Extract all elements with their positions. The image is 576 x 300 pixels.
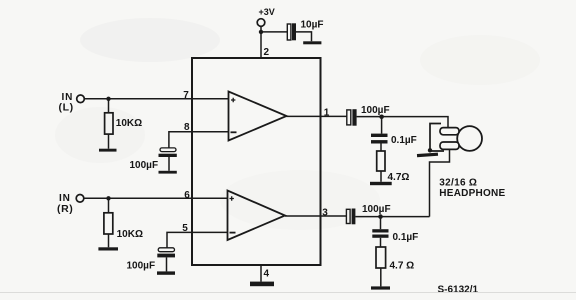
- wire pin 4 to ground: [260, 265, 262, 282]
- svg-text:1: 1: [324, 108, 330, 119]
- junction dot left output node: [379, 115, 384, 120]
- svg-text:0.1µF: 0.1µF: [391, 135, 417, 146]
- node IN (R) input terminal: [57, 193, 84, 215]
- wire C6 to headphone branch: [355, 216, 429, 218]
- capacitor C6 100uF series right: [346, 209, 355, 225]
- wire pin 5 to C3: [167, 232, 228, 247]
- wire IN (L) to op-amp pin 7: [84, 98, 228, 100]
- wire C2 to ground: [168, 157, 170, 171]
- resistor R2 10K: [104, 213, 113, 234]
- wire C1 to ground: [296, 32, 312, 41]
- ground below R3: [370, 182, 392, 185]
- svg-text:4.7Ω: 4.7Ω: [388, 172, 410, 183]
- op-amp U1b: [228, 191, 286, 241]
- wire junction to C5: [381, 117, 383, 134]
- ground below C3: [157, 271, 175, 274]
- capacitor C7 0.1uF right: [372, 229, 388, 238]
- capacitor C1 10uF: [287, 23, 296, 40]
- wire R1 to ground: [108, 134, 110, 149]
- ground below R2: [98, 247, 118, 250]
- wire headphone lower lug to right channel: [430, 149, 450, 216]
- capacitor C2 100uF: [159, 148, 177, 157]
- capacitor C3 100uF: [157, 248, 175, 258]
- junction dot right output node: [378, 214, 383, 219]
- svg-text:100µF: 100µF: [130, 160, 159, 171]
- ground below R1: [99, 149, 117, 152]
- junction dot left input node: [106, 97, 110, 101]
- node +3V supply terminal: [257, 7, 275, 26]
- svg-text:(R): (R): [57, 203, 73, 215]
- svg-text:HEADPHONE: HEADPHONE: [439, 188, 505, 199]
- capacitor C4 100uF series left: [347, 109, 357, 126]
- wire junction to R1: [108, 99, 110, 113]
- wire junction to R2: [108, 198, 110, 213]
- capacitor C5 0.1uF: [371, 134, 388, 144]
- svg-text:S-6132/1: S-6132/1: [438, 285, 479, 296]
- ground below C2: [159, 171, 177, 174]
- svg-text:100µF: 100µF: [361, 105, 390, 116]
- ground headphone frame: [417, 153, 438, 158]
- svg-text:10KΩ: 10KΩ: [116, 118, 142, 129]
- junction dot headphone frame: [428, 148, 432, 152]
- wire C3 to ground: [166, 257, 168, 271]
- resistor R1 10K: [105, 113, 113, 134]
- svg-text:3: 3: [322, 208, 328, 219]
- IC U1 package outline: [192, 58, 321, 265]
- svg-text:7: 7: [183, 90, 189, 101]
- ground below R4: [371, 286, 390, 289]
- wire pin 8 to C2: [169, 132, 229, 148]
- svg-text:2: 2: [264, 47, 270, 58]
- junction dot supply node: [259, 30, 263, 34]
- wire junction to C7: [380, 217, 382, 230]
- svg-text:4.7 Ω: 4.7 Ω: [390, 261, 415, 272]
- wire IN (R) to op-amp pin 6: [84, 197, 228, 199]
- junction dot right input node: [106, 196, 110, 200]
- ground pin 4: [250, 282, 274, 287]
- op-amp U1a: [229, 92, 287, 141]
- svg-text:(L): (L): [59, 101, 74, 113]
- wire R4 to ground: [380, 268, 382, 286]
- svg-text:100µF: 100µF: [362, 204, 391, 215]
- wire R2 to ground: [108, 234, 110, 247]
- wire C7 to R4: [380, 238, 382, 247]
- wire junction to C1: [261, 31, 287, 33]
- wire pin 2: [260, 32, 262, 58]
- ground top right: [303, 41, 321, 44]
- svg-text:4: 4: [264, 269, 270, 280]
- wire R3 to ground: [380, 171, 382, 182]
- svg-text:+3V: +3V: [259, 7, 275, 17]
- svg-text:100µF: 100µF: [127, 261, 156, 272]
- svg-text:6: 6: [184, 190, 190, 201]
- wire +3V terminal to junction: [260, 26, 262, 32]
- svg-text:0.1µF: 0.1µF: [393, 232, 419, 243]
- node IN (L) input terminal: [59, 92, 85, 114]
- wire op-amp U1a output pin 1: [287, 115, 347, 117]
- wire C4 to headphone: [357, 117, 448, 128]
- svg-text:10KΩ: 10KΩ: [117, 229, 143, 240]
- headphone transducer: [430, 124, 482, 152]
- svg-text:10µF: 10µF: [301, 20, 324, 31]
- resistor R4 4.7 ohm: [376, 247, 386, 268]
- wire op-amp U1b output pin 3: [285, 215, 346, 217]
- wire C5 to R3: [380, 144, 382, 152]
- resistor R3 4.7 ohm: [377, 151, 385, 171]
